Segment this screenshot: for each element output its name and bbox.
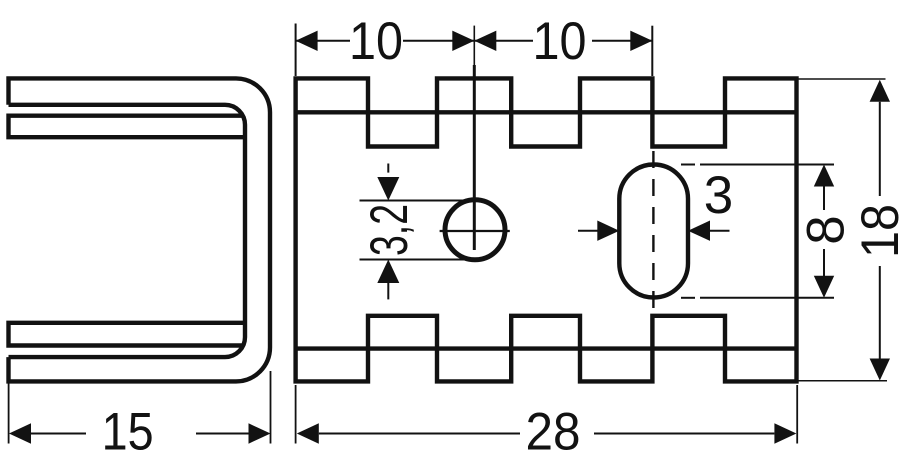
- arrowhead up 18: [870, 80, 890, 102]
- arrowhead left to slot right edge: [688, 221, 710, 241]
- extension line left: [295, 385, 297, 444]
- extension line left: [8, 382, 10, 444]
- top view upper bend line: [296, 110, 797, 114]
- hole horizontal centerline: [440, 230, 510, 232]
- dimension 18 (overall height): [798, 79, 887, 381]
- extension line slot center: [651, 26, 653, 76]
- svg-text:8: 8: [797, 215, 856, 244]
- side view inner bottom lip: [9, 323, 247, 346]
- extension line hole top: [360, 200, 470, 202]
- arrowhead down to hole top: [377, 177, 399, 201]
- dimension 28 (overall width): [296, 385, 798, 444]
- slot dashed centerline: [652, 151, 654, 308]
- extension line top right: [798, 78, 886, 80]
- svg-text:15: 15: [102, 403, 154, 458]
- svg-text:10: 10: [349, 12, 403, 71]
- arrowhead right of second 10: [630, 31, 652, 51]
- arrowheads at hole centerline: [452, 31, 474, 51]
- dimension 3 (slot width): [578, 230, 730, 232]
- arrowhead right to slot left edge: [597, 221, 619, 241]
- slot 3x8: [619, 165, 688, 298]
- extension line slot bottom: [681, 297, 695, 299]
- side view outer contour (U-profile): [9, 78, 271, 381]
- arrowhead up to slot top: [814, 165, 834, 187]
- arrowhead down 18: [870, 359, 890, 381]
- dimension line segments: [823, 187, 825, 211]
- svg-text:10: 10: [533, 12, 587, 71]
- svg-text:3,2: 3,2: [360, 204, 419, 256]
- side view inner contour: [9, 105, 246, 357]
- dimension line segments: [296, 40, 350, 42]
- extension line right: [796, 385, 798, 444]
- top view castellated outline: [296, 78, 797, 381]
- dimension 15 (side view width): [9, 371, 271, 444]
- arrowhead left of first 10: [296, 31, 318, 51]
- arrowhead up to hole bottom: [377, 260, 399, 284]
- extension line bottom right: [798, 380, 887, 382]
- top view lower bend line: [296, 346, 797, 350]
- dimension 8 (slot height): [681, 165, 834, 298]
- side view inner top lip: [9, 116, 247, 138]
- svg-text:3: 3: [704, 166, 733, 225]
- extension line slot top: [681, 164, 695, 166]
- svg-text:28: 28: [526, 403, 581, 458]
- mounting hole 3,2: [445, 200, 505, 260]
- extension line right: [270, 371, 272, 444]
- hole vertical centerline: [440, 26, 654, 308]
- tail below arrow: [387, 282, 389, 300]
- svg-text:18: 18: [851, 204, 910, 258]
- dimension 10/10 (top): [296, 24, 653, 77]
- extension line left edge: [295, 24, 297, 77]
- extension line hole bottom: [360, 259, 474, 261]
- dimension 3,2 (hole): [360, 164, 474, 300]
- dash above arrow: [387, 164, 389, 173]
- arrowhead down to slot bottom: [814, 276, 834, 298]
